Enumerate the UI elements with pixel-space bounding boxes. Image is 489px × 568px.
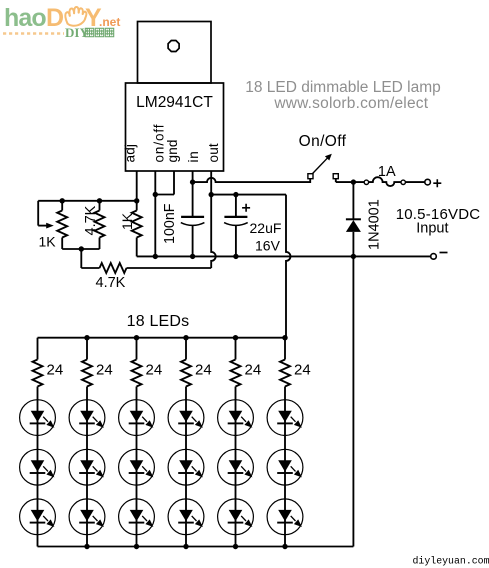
wire in pin [192, 171, 194, 217]
junction in pin [190, 179, 195, 184]
switch blade arrow [313, 158, 328, 173]
svg-text:1K: 1K [39, 234, 57, 250]
wire LED series [284, 436, 286, 450]
svg-text:LM2941CT: LM2941CT [136, 94, 213, 111]
junction pot top [60, 198, 65, 203]
svg-text:24: 24 [294, 362, 311, 379]
svg-text:100nF: 100nF [162, 203, 178, 244]
svg-text:18 LED dimmable LED lamp: 18 LED dimmable LED lamp [245, 79, 441, 96]
resistor R4 4.7K [100, 263, 127, 273]
wire pot wiper [37, 201, 39, 226]
junction on/off-gnd [153, 192, 158, 197]
wire LED series [185, 436, 187, 450]
LED D12 [168, 449, 204, 485]
LED D15 [218, 449, 254, 485]
wire gnd pin jumper to on/off [173, 171, 175, 195]
svg-text:1N4001: 1N4001 [367, 199, 383, 250]
regulator U1 body [126, 83, 224, 171]
svg-text:Input: Input [416, 221, 448, 237]
svg-text:D: D [46, 4, 64, 32]
svg-text:24: 24 [96, 362, 113, 379]
svg-text:4.7K: 4.7K [83, 205, 99, 235]
junction 100nF bottom [190, 254, 195, 259]
LED D6 [69, 449, 105, 485]
wire fuse to + terminal [405, 181, 424, 183]
junction 22uF bottom [233, 254, 238, 259]
wire LED series [185, 485, 187, 499]
wire LED return [352, 256, 354, 546]
wire LED series [235, 485, 237, 499]
junction bottom rail col 3 [134, 544, 139, 549]
positive terminal [425, 179, 431, 185]
wire ground rail [137, 255, 434, 257]
wire adj pin [136, 171, 138, 211]
wire LED series [284, 485, 286, 499]
LED D18 [267, 449, 303, 485]
junction top rail col 6 [282, 335, 287, 340]
LED D9 [119, 449, 155, 485]
wire to 4.7K feedback [80, 249, 82, 268]
pot wiper arrow [46, 223, 54, 229]
wire LED series [136, 485, 138, 499]
LED D3 [20, 449, 56, 485]
svg-text:adj: adj [122, 144, 137, 163]
junction on/off bottom [153, 254, 158, 259]
wire LED column bottom [86, 535, 88, 547]
svg-text:1A: 1A [378, 164, 396, 180]
wire LED series [86, 485, 88, 499]
LED D4 [20, 499, 56, 535]
switch S1 right contact [333, 174, 338, 179]
wire LED column bottom [136, 535, 138, 547]
svg-text:24: 24 [47, 362, 64, 379]
resistor R9 24 [235, 338, 237, 360]
LED D7 [69, 499, 105, 535]
LED D2 [20, 400, 56, 436]
wire LED series [235, 436, 237, 450]
junction 4.7K top [97, 198, 102, 203]
wire LED column bottom [284, 535, 286, 547]
wire LED series [86, 436, 88, 450]
svg-text:24: 24 [146, 362, 163, 379]
svg-text:22uF: 22uF [250, 220, 282, 236]
LED D13 [168, 499, 204, 535]
junction out [209, 192, 214, 197]
capacitor C2 22uF 16V [235, 195, 237, 217]
svg-text:in: in [186, 150, 201, 162]
wire LED column bottom [37, 535, 39, 547]
wire 4.7K to out [127, 267, 212, 269]
LED D11 [168, 400, 204, 436]
LED D5 [69, 400, 105, 436]
LED D17 [267, 400, 303, 436]
resistor R5 24 [37, 338, 39, 360]
svg-text:16V: 16V [255, 238, 281, 254]
resistor R7 24 [136, 338, 138, 360]
switch S1 left contact [308, 174, 313, 179]
wire out down with hop over ground rail [211, 195, 216, 268]
wire out pin [210, 171, 212, 195]
junction divider bottom [79, 246, 84, 251]
wire LED bottom rail [38, 546, 354, 548]
svg-text:gnd: gnd [165, 139, 180, 162]
resistor R3 1K [136, 210, 138, 212]
svg-text:hao: hao [4, 4, 46, 32]
junction top rail col 4 [183, 335, 188, 340]
diode D1 1N4001 [352, 182, 354, 220]
junction diode top [351, 179, 356, 184]
resistor R8 24 [185, 338, 187, 360]
junction bottom rail col 2 [84, 544, 89, 549]
wire in to switch with hop over out [193, 178, 311, 182]
junction diode bottom [351, 254, 356, 259]
junction bottom rail col 6 [282, 544, 287, 549]
wire LED series [136, 436, 138, 450]
wire pot bottom [62, 248, 99, 250]
svg-text:1K: 1K [119, 212, 135, 230]
svg-text:24: 24 [195, 362, 212, 379]
svg-text:.net: .net [99, 15, 120, 29]
logo haoDIY.net [3, 4, 120, 40]
fuse F1 1A [364, 180, 368, 184]
wire out rail [211, 194, 286, 196]
resistor R10 24 [284, 338, 286, 360]
wire switch to fuse [335, 179, 337, 182]
wire LED column bottom [185, 535, 187, 547]
LED D14 [218, 400, 254, 436]
svg-text:On/Off: On/Off [299, 133, 347, 150]
mounting hole [168, 41, 179, 52]
svg-text:24: 24 [245, 362, 262, 379]
capacitor C1 100nF [181, 216, 204, 218]
junction top rail col 3 [134, 335, 139, 340]
wire top rail [38, 200, 137, 202]
wire on/off pin [154, 171, 156, 256]
svg-text:4.7K: 4.7K [96, 275, 126, 291]
LED D16 [218, 499, 254, 535]
wire LED column bottom [235, 535, 237, 547]
wire LED feed with hop over ground rail [286, 195, 291, 338]
LED D8 [119, 400, 155, 436]
LED D19 [267, 499, 303, 535]
wire LED series [37, 436, 39, 450]
svg-text:out: out [206, 143, 221, 162]
junction bottom rail col 5 [233, 544, 238, 549]
resistor R2 4.7K [99, 201, 101, 211]
resistor R6 24 [86, 338, 88, 360]
junction top rail col 5 [233, 335, 238, 340]
negative terminal [431, 254, 437, 260]
junction 22uF top [233, 192, 238, 197]
wire LED top rail [38, 337, 287, 339]
LED D10 [119, 499, 155, 535]
svg-text:18 LEDs: 18 LEDs [127, 313, 190, 330]
svg-text:diyleyuan.com: diyleyuan.com [413, 556, 489, 567]
regulator U1 LM2941CT package tab [138, 22, 212, 84]
wire LED series [37, 485, 39, 499]
svg-text:www.solorb.com/elect: www.solorb.com/elect [273, 95, 428, 112]
junction top rail col 2 [84, 335, 89, 340]
potentiometer R1 1K [61, 201, 63, 211]
junction bottom rail col 4 [183, 544, 188, 549]
junction adj [134, 198, 139, 203]
